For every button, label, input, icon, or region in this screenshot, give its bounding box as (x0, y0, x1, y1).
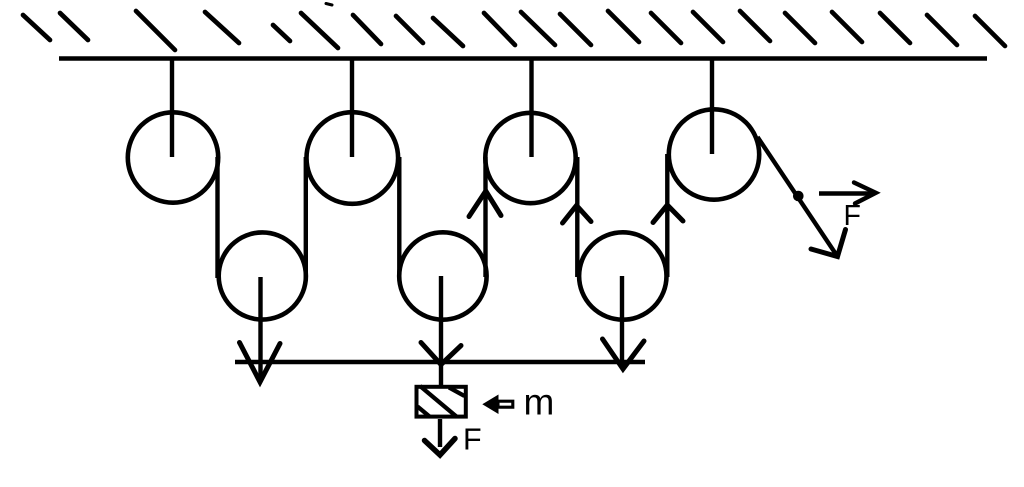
svg-text:F: F (463, 423, 482, 457)
svg-text:m: m (524, 382, 555, 423)
svg-text:F: F (844, 200, 861, 232)
